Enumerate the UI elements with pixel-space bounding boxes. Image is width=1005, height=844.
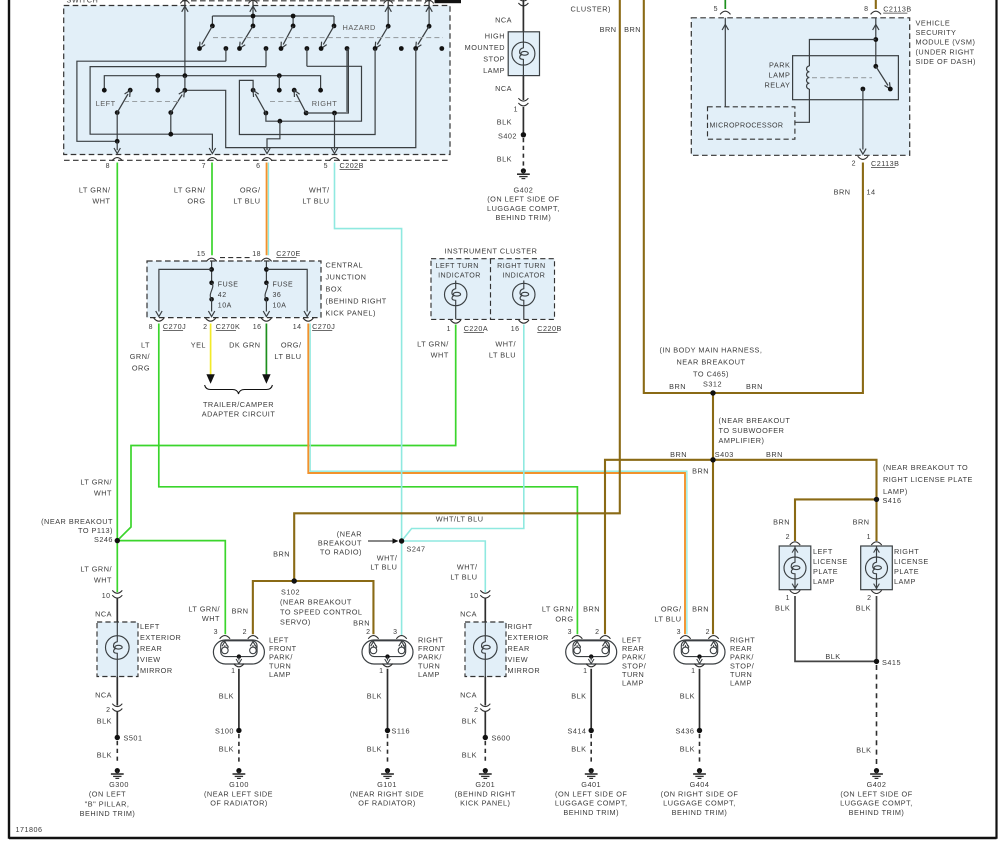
svg-text:BRN: BRN	[600, 25, 617, 34]
svg-text:ORG: ORG	[187, 197, 205, 206]
svg-text:TO P113): TO P113)	[78, 526, 113, 535]
svg-text:BRN: BRN	[853, 518, 870, 527]
svg-text:G100: G100	[229, 780, 249, 789]
svg-text:MODULE (VSM): MODULE (VSM)	[916, 38, 976, 47]
svg-text:2: 2	[243, 629, 247, 636]
svg-text:LAMP: LAMP	[769, 71, 791, 80]
svg-text:(IN BODY MAIN HARNESS,: (IN BODY MAIN HARNESS,	[660, 346, 763, 355]
svg-text:ADAPTER CIRCUIT: ADAPTER CIRCUIT	[202, 410, 276, 419]
svg-text:LUGGAGE COMPT,: LUGGAGE COMPT,	[555, 799, 628, 808]
svg-text:C2113B: C2113B	[883, 5, 911, 14]
svg-text:LEFT: LEFT	[140, 622, 160, 631]
svg-text:G300: G300	[109, 780, 129, 789]
svg-text:C220B: C220B	[537, 324, 561, 333]
svg-text:(BEHIND RIGHT: (BEHIND RIGHT	[326, 297, 387, 306]
svg-text:(NEAR LEFT SIDE: (NEAR LEFT SIDE	[204, 789, 273, 798]
svg-text:EXTERIOR: EXTERIOR	[140, 633, 181, 642]
svg-text:JUNCTION: JUNCTION	[326, 273, 367, 282]
svg-text:LAMP: LAMP	[418, 670, 440, 679]
svg-text:BLK: BLK	[462, 751, 477, 760]
svg-text:CLUSTER): CLUSTER)	[571, 5, 612, 14]
svg-text:C270E: C270E	[276, 249, 300, 258]
svg-text:RELAY: RELAY	[765, 81, 791, 90]
svg-text:C220A: C220A	[464, 324, 488, 333]
svg-text:RIGHT: RIGHT	[508, 622, 533, 631]
svg-text:"B" PILLAR,: "B" PILLAR,	[85, 800, 130, 809]
svg-text:S415: S415	[882, 658, 901, 667]
svg-text:SIDE OF DASH): SIDE OF DASH)	[916, 57, 976, 66]
svg-text:BLK: BLK	[775, 604, 790, 613]
svg-text:C270J: C270J	[163, 322, 186, 331]
svg-text:NCA: NCA	[95, 691, 112, 700]
svg-text:S600: S600	[492, 734, 511, 743]
svg-text:LT BLU: LT BLU	[302, 197, 329, 206]
svg-text:14: 14	[293, 324, 302, 331]
svg-text:5: 5	[714, 6, 718, 13]
svg-text:ORG: ORG	[555, 615, 573, 624]
svg-text:1: 1	[691, 668, 695, 675]
svg-text:OF RADIATOR): OF RADIATOR)	[210, 799, 268, 808]
svg-text:LT BLU: LT BLU	[489, 351, 516, 360]
svg-text:REAR: REAR	[140, 644, 162, 653]
svg-text:C202B: C202B	[340, 161, 364, 170]
svg-text:S100: S100	[215, 727, 234, 736]
svg-text:BRN: BRN	[773, 518, 790, 527]
svg-text:BLK: BLK	[219, 745, 234, 754]
svg-text:BLK: BLK	[497, 155, 512, 164]
svg-text:SWITCH: SWITCH	[67, 0, 99, 5]
svg-text:BOX: BOX	[326, 285, 343, 294]
svg-text:BLK: BLK	[367, 692, 382, 701]
svg-text:BEHIND TRIM): BEHIND TRIM)	[80, 809, 136, 818]
svg-text:S102: S102	[281, 588, 300, 597]
svg-text:LT GRN/: LT GRN/	[417, 340, 449, 349]
svg-text:TRAILER/CAMPER: TRAILER/CAMPER	[203, 400, 274, 409]
svg-text:8: 8	[106, 163, 110, 170]
svg-text:3: 3	[214, 629, 218, 636]
svg-text:(NEAR BREAKOUT: (NEAR BREAKOUT	[41, 517, 113, 526]
svg-text:EXTERIOR: EXTERIOR	[508, 633, 549, 642]
svg-text:RIGHT: RIGHT	[312, 99, 338, 108]
svg-text:S312: S312	[703, 380, 722, 389]
svg-text:RIGHT LICENSE PLATE: RIGHT LICENSE PLATE	[883, 475, 973, 484]
svg-text:2: 2	[706, 629, 710, 636]
svg-text:MIRROR: MIRROR	[140, 666, 173, 675]
svg-text:BEHIND TRIM): BEHIND TRIM)	[563, 808, 619, 817]
svg-text:1: 1	[867, 534, 871, 541]
svg-text:G404: G404	[690, 780, 710, 789]
svg-text:MIRROR: MIRROR	[508, 666, 541, 675]
svg-text:NCA: NCA	[460, 691, 477, 700]
svg-text:LAMP: LAMP	[813, 577, 835, 586]
svg-text:BRN: BRN	[692, 605, 709, 614]
svg-text:BLK: BLK	[825, 652, 840, 661]
svg-text:(ON LEFT SIDE OF: (ON LEFT SIDE OF	[840, 789, 912, 798]
svg-text:LICENSE: LICENSE	[813, 557, 848, 566]
svg-text:10A: 10A	[218, 303, 232, 310]
svg-text:OF RADIATOR): OF RADIATOR)	[358, 799, 416, 808]
svg-text:BLK: BLK	[571, 692, 586, 701]
svg-text:LAMP: LAMP	[730, 679, 752, 688]
svg-text:WHT: WHT	[431, 351, 449, 360]
svg-text:1: 1	[379, 668, 383, 675]
svg-text:3: 3	[393, 629, 397, 636]
svg-text:LT GRN/: LT GRN/	[79, 186, 111, 195]
svg-text:NCA: NCA	[460, 610, 477, 619]
svg-text:S414: S414	[567, 727, 586, 736]
svg-text:FUSE: FUSE	[273, 282, 294, 289]
svg-text:BLK: BLK	[97, 751, 112, 760]
svg-text:VIEW: VIEW	[140, 655, 161, 664]
svg-text:RIGHT: RIGHT	[894, 547, 919, 556]
svg-text:1: 1	[447, 326, 451, 333]
svg-text:LT BLU: LT BLU	[450, 573, 477, 582]
svg-text:BLK: BLK	[680, 692, 695, 701]
svg-text:YEL: YEL	[191, 341, 206, 350]
svg-text:BRN: BRN	[766, 450, 783, 459]
svg-text:DK GRN: DK GRN	[229, 341, 260, 350]
svg-text:(ON LEFT SIDE OF: (ON LEFT SIDE OF	[555, 789, 627, 798]
svg-text:42: 42	[218, 292, 227, 299]
svg-text:G201: G201	[475, 780, 495, 789]
svg-text:TO SPEED CONTROL: TO SPEED CONTROL	[280, 608, 362, 617]
svg-text:WHT: WHT	[94, 489, 112, 498]
svg-text:LAMP: LAMP	[622, 679, 644, 688]
svg-text:C2113B: C2113B	[871, 159, 899, 168]
svg-text:2: 2	[474, 707, 478, 714]
svg-text:BLK: BLK	[571, 745, 586, 754]
svg-text:WHT: WHT	[94, 576, 112, 585]
svg-text:ORG/: ORG/	[661, 605, 682, 614]
svg-text:PLATE: PLATE	[813, 567, 838, 576]
svg-text:14: 14	[867, 188, 876, 197]
svg-text:WHT/: WHT/	[457, 563, 478, 572]
svg-text:2: 2	[595, 629, 599, 636]
svg-text:BLK: BLK	[856, 746, 871, 755]
svg-text:5: 5	[324, 163, 328, 170]
svg-text:1: 1	[786, 595, 790, 602]
svg-text:KICK PANEL): KICK PANEL)	[460, 799, 510, 808]
svg-text:16: 16	[511, 326, 520, 333]
svg-text:1: 1	[231, 668, 235, 675]
svg-text:WHT/: WHT/	[309, 186, 330, 195]
svg-text:BLK: BLK	[856, 604, 871, 613]
svg-text:1: 1	[583, 668, 587, 675]
svg-text:LT GRN/: LT GRN/	[174, 186, 206, 195]
svg-text:LT BLU: LT BLU	[370, 563, 397, 572]
svg-text:BLK: BLK	[462, 717, 477, 726]
svg-text:(ON RIGHT SIDE OF: (ON RIGHT SIDE OF	[661, 789, 739, 798]
svg-text:LAMP): LAMP)	[883, 487, 908, 496]
svg-text:8: 8	[149, 324, 153, 331]
svg-text:BRN: BRN	[692, 466, 709, 475]
svg-text:BLK: BLK	[219, 692, 234, 701]
svg-text:BRN: BRN	[834, 188, 851, 197]
svg-text:LEFT: LEFT	[96, 99, 116, 108]
svg-text:1: 1	[514, 107, 518, 114]
svg-text:LT GRN/: LT GRN/	[80, 565, 112, 574]
svg-text:BEHIND TRIM): BEHIND TRIM)	[849, 808, 905, 817]
svg-text:INSTRUMENT CLUSTER: INSTRUMENT CLUSTER	[445, 247, 538, 256]
svg-text:(ON LEFT: (ON LEFT	[89, 789, 126, 798]
svg-text:(NEAR: (NEAR	[337, 530, 362, 539]
svg-text:LT GRN/: LT GRN/	[80, 478, 112, 487]
svg-text:(NEAR BREAKOUT: (NEAR BREAKOUT	[719, 416, 791, 425]
svg-text:VEHICLE: VEHICLE	[916, 19, 951, 28]
svg-text:NCA: NCA	[95, 610, 112, 619]
svg-text:LICENSE: LICENSE	[894, 557, 929, 566]
svg-text:BRN: BRN	[670, 450, 687, 459]
svg-text:LEFT: LEFT	[813, 547, 833, 556]
svg-text:LAMP: LAMP	[483, 66, 505, 75]
svg-text:HIGH: HIGH	[485, 32, 505, 41]
svg-text:18: 18	[252, 251, 261, 258]
svg-text:BRN: BRN	[273, 550, 290, 559]
svg-text:(NEAR RIGHT SIDE: (NEAR RIGHT SIDE	[350, 789, 424, 798]
svg-text:BREAKOUT: BREAKOUT	[318, 539, 362, 548]
svg-text:NCA: NCA	[495, 16, 512, 25]
svg-text:LT: LT	[141, 341, 150, 350]
svg-text:3: 3	[568, 629, 572, 636]
svg-text:G401: G401	[581, 780, 601, 789]
svg-text:CENTRAL: CENTRAL	[326, 261, 364, 270]
svg-text:WHT/LT BLU: WHT/LT BLU	[436, 515, 484, 524]
svg-text:6: 6	[256, 163, 260, 170]
svg-text:ORG/: ORG/	[240, 186, 261, 195]
svg-text:BRN: BRN	[353, 618, 370, 627]
svg-text:LUGGAGE COMPT,: LUGGAGE COMPT,	[840, 799, 913, 808]
svg-text:LAMP: LAMP	[269, 670, 291, 679]
svg-text:BLK: BLK	[367, 745, 382, 754]
svg-text:MOUNTED: MOUNTED	[465, 43, 505, 52]
svg-text:TO SUBWOOFER: TO SUBWOOFER	[719, 426, 785, 435]
svg-text:BLK: BLK	[97, 717, 112, 726]
svg-text:10: 10	[102, 593, 111, 600]
svg-text:KICK PANEL): KICK PANEL)	[326, 309, 376, 318]
svg-text:TO RADIO): TO RADIO)	[320, 548, 362, 557]
svg-text:(NEAR BREAKOUT TO: (NEAR BREAKOUT TO	[883, 463, 968, 472]
svg-text:LT BLU: LT BLU	[654, 615, 681, 624]
svg-text:BRN: BRN	[583, 605, 600, 614]
svg-text:2: 2	[366, 629, 370, 636]
svg-text:(UNDER RIGHT: (UNDER RIGHT	[916, 47, 975, 56]
svg-text:BRN: BRN	[669, 382, 686, 391]
svg-text:2: 2	[852, 161, 856, 168]
svg-text:INDICATOR: INDICATOR	[503, 272, 546, 280]
svg-text:LT BLU: LT BLU	[274, 352, 301, 361]
svg-text:REAR: REAR	[508, 644, 530, 653]
svg-text:BEHIND TRIM): BEHIND TRIM)	[672, 808, 728, 817]
svg-text:2: 2	[203, 324, 207, 331]
svg-text:LUGGAGE COMPT,: LUGGAGE COMPT,	[663, 799, 736, 808]
svg-text:S416: S416	[883, 496, 902, 505]
svg-text:36: 36	[273, 292, 282, 299]
svg-text:GRN/: GRN/	[130, 352, 151, 361]
svg-text:16: 16	[253, 324, 262, 331]
svg-text:MICROPROCESSOR: MICROPROCESSOR	[710, 122, 784, 130]
svg-text:STOP: STOP	[483, 55, 505, 64]
svg-text:G402: G402	[513, 185, 533, 194]
svg-text:LEFT TURN: LEFT TURN	[436, 262, 479, 270]
svg-text:7: 7	[202, 163, 206, 170]
svg-text:BLK: BLK	[497, 118, 512, 127]
svg-text:S246: S246	[94, 535, 113, 544]
svg-text:G101: G101	[377, 780, 397, 789]
svg-text:2: 2	[786, 534, 790, 541]
svg-text:LAMP: LAMP	[894, 577, 916, 586]
svg-text:171806: 171806	[16, 825, 43, 834]
svg-text:C270K: C270K	[216, 322, 240, 331]
svg-text:TO C465): TO C465)	[693, 370, 729, 379]
svg-text:PLATE: PLATE	[894, 567, 919, 576]
svg-text:VIEW: VIEW	[508, 655, 529, 664]
svg-text:10: 10	[470, 593, 479, 600]
svg-text:LT GRN/: LT GRN/	[542, 605, 574, 614]
svg-text:HAZARD: HAZARD	[343, 23, 376, 32]
svg-text:BEHIND TRIM): BEHIND TRIM)	[496, 213, 552, 222]
svg-text:(NEAR BREAKOUT: (NEAR BREAKOUT	[280, 598, 352, 607]
svg-text:(BEHIND RIGHT: (BEHIND RIGHT	[455, 789, 516, 798]
svg-text:NCA: NCA	[495, 84, 512, 93]
svg-text:S501: S501	[124, 734, 143, 743]
svg-text:BRN: BRN	[624, 25, 641, 34]
svg-text:LT GRN/: LT GRN/	[188, 605, 220, 614]
svg-text:WHT: WHT	[92, 197, 110, 206]
svg-text:NEAR BREAKOUT: NEAR BREAKOUT	[677, 358, 746, 367]
svg-text:SECURITY: SECURITY	[916, 28, 957, 37]
svg-text:FUSE: FUSE	[218, 282, 239, 289]
svg-text:BLK: BLK	[680, 745, 695, 754]
svg-text:S116: S116	[392, 727, 411, 736]
svg-text:RIGHT TURN: RIGHT TURN	[497, 262, 545, 270]
svg-text:3: 3	[677, 629, 681, 636]
svg-text:2: 2	[106, 707, 110, 714]
svg-text:WHT: WHT	[202, 614, 220, 623]
svg-text:BRN: BRN	[232, 607, 249, 616]
svg-text:SERVO): SERVO)	[280, 618, 311, 627]
svg-text:15: 15	[197, 251, 206, 258]
svg-text:ORG: ORG	[132, 364, 150, 373]
svg-text:INDICATOR: INDICATOR	[438, 272, 481, 280]
svg-text:(ON LEFT SIDE OF: (ON LEFT SIDE OF	[487, 195, 559, 204]
svg-text:S403: S403	[715, 450, 734, 459]
svg-text:G402: G402	[867, 780, 887, 789]
svg-text:2: 2	[867, 595, 871, 602]
svg-text:10A: 10A	[273, 303, 287, 310]
svg-text:8: 8	[864, 6, 868, 13]
svg-text:S436: S436	[675, 727, 694, 736]
svg-text:AMPLIFIER): AMPLIFIER)	[719, 436, 765, 445]
svg-text:LUGGAGE COMPT,: LUGGAGE COMPT,	[487, 204, 560, 213]
svg-text:WHT/: WHT/	[495, 340, 516, 349]
svg-text:LT BLU: LT BLU	[233, 197, 260, 206]
svg-text:ORG/: ORG/	[281, 341, 302, 350]
svg-text:BRN: BRN	[746, 382, 763, 391]
svg-text:S402: S402	[498, 132, 517, 141]
svg-text:WHT/: WHT/	[377, 554, 398, 563]
svg-text:C270J: C270J	[312, 322, 335, 331]
svg-text:S247: S247	[407, 545, 426, 554]
svg-text:PARK: PARK	[769, 61, 790, 70]
